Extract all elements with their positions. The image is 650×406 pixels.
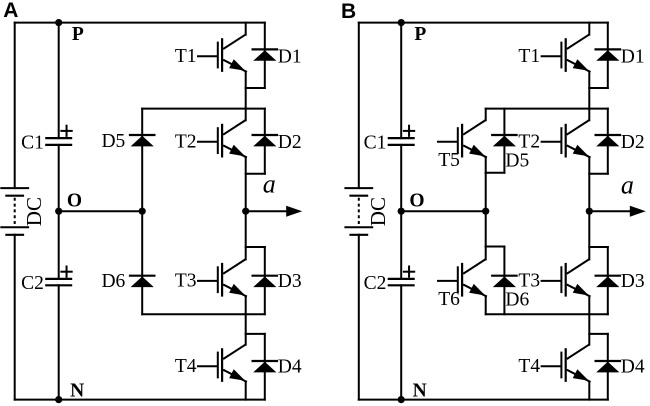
wire bottom rail N xyxy=(15,399,265,401)
wire left branch upper xyxy=(14,23,16,189)
diode D4 cathode bar xyxy=(253,360,277,362)
capacitor C1 bottom plate xyxy=(46,144,71,146)
svg-text:T2: T2 xyxy=(175,132,197,153)
diode D4 triangle xyxy=(253,362,276,373)
svg-text:T6: T6 xyxy=(438,289,460,310)
output arrow line xyxy=(246,210,289,212)
DC source battery cell 1 long plate xyxy=(345,187,372,189)
wire output to T3 collector xyxy=(588,211,590,259)
transistor T4 collector lead xyxy=(224,345,245,359)
wire D3 cathode jog xyxy=(246,246,265,248)
transistor T1 gate lead xyxy=(198,55,217,57)
diode D3 triangle xyxy=(253,277,276,288)
wire O to clamp diodes xyxy=(59,210,143,212)
wire T1 emitter to junction xyxy=(245,72,247,109)
svg-text:B: B xyxy=(341,0,356,23)
svg-text:C2: C2 xyxy=(364,273,387,294)
svg-text:D4: D4 xyxy=(621,356,645,377)
transistor T2 emitter lead xyxy=(224,146,246,157)
transistor T4 emitter arrow xyxy=(229,369,245,381)
svg-text:D6: D6 xyxy=(505,289,529,310)
capacitor C2 top plate xyxy=(46,278,71,280)
transistor T3 emitter lead xyxy=(568,285,590,296)
wire T3 emitter to junction xyxy=(245,296,247,314)
wire D1 column xyxy=(607,23,609,88)
svg-text:A: A xyxy=(3,0,18,22)
transistor T2 emitter arrow xyxy=(229,145,245,157)
svg-text:T5: T5 xyxy=(438,150,460,171)
diode D6 triangle xyxy=(493,277,516,288)
svg-text:C1: C1 xyxy=(21,132,44,153)
transistor T2 gate lead xyxy=(198,141,217,143)
diode D4 cathode bar xyxy=(596,360,620,362)
transistor T4 gate lead xyxy=(198,365,217,367)
svg-text:D3: D3 xyxy=(621,271,645,292)
transistor T2 body bar xyxy=(565,125,567,156)
node N xyxy=(55,396,62,403)
wire clamp column upper xyxy=(141,109,143,212)
svg-text:C1: C1 xyxy=(364,132,387,153)
transistor T3 gate bar xyxy=(560,267,562,292)
diode D5 triangle xyxy=(131,136,154,147)
wire top rail P xyxy=(15,22,265,24)
wire T1 collector stub xyxy=(588,23,590,35)
diode D1 cathode bar xyxy=(253,48,277,50)
wire D4 cathode jog xyxy=(246,333,265,335)
transistor T6 body bar xyxy=(461,264,463,296)
wire capacitor branch C1 to C2 xyxy=(58,145,60,279)
transistor T3 emitter arrow xyxy=(229,284,245,296)
transistor T1 gate bar xyxy=(217,43,219,68)
wire T5 collector stub xyxy=(485,109,487,121)
transistor T4 emitter arrow xyxy=(573,369,589,381)
wire T6 collector stub xyxy=(485,247,487,260)
wire upper junction line xyxy=(142,108,265,110)
DC source battery cell 1 short plate xyxy=(351,195,368,197)
transistor T3 body bar xyxy=(221,264,223,296)
transistor T2 gate bar xyxy=(217,128,219,153)
wire T1 collector stub xyxy=(245,23,247,35)
transistor T3 emitter arrow xyxy=(573,284,589,296)
svg-text:D2: D2 xyxy=(278,132,302,153)
wire D2 column xyxy=(264,109,266,174)
wire T4 collector stub xyxy=(588,314,590,345)
node O xyxy=(55,208,62,215)
transistor T1 gate bar xyxy=(560,43,562,68)
wire D4 column xyxy=(607,334,609,400)
diode D2 cathode bar xyxy=(596,134,620,136)
diode D5 cathode bar xyxy=(492,134,516,136)
svg-text:C2: C2 xyxy=(21,273,44,294)
svg-text:a: a xyxy=(621,170,634,199)
transistor T1 body bar xyxy=(221,39,223,71)
wire D3 column xyxy=(607,247,609,314)
diode D6 cathode bar xyxy=(130,275,154,277)
output arrowhead xyxy=(630,206,646,217)
transistor T3 gate bar xyxy=(217,267,219,292)
wire T2 emitter to output xyxy=(245,157,247,211)
transistor T5 gate bar xyxy=(457,128,459,153)
svg-text:P: P xyxy=(72,24,84,45)
diode D3 triangle xyxy=(596,277,619,288)
svg-text:D1: D1 xyxy=(278,46,302,67)
node O xyxy=(398,208,405,215)
transistor T1 gate lead xyxy=(542,55,561,57)
transistor T3 collector lead xyxy=(224,259,245,273)
wire left branch lower xyxy=(14,235,16,400)
transistor T1 collector lead xyxy=(224,35,245,49)
transistor T6 collector lead xyxy=(464,259,485,273)
wire D4 cathode jog xyxy=(589,333,608,335)
wire D5 column xyxy=(503,109,505,173)
wire clamp to O xyxy=(485,173,487,211)
capacitor C1 plus sign xyxy=(61,130,71,132)
wire D6 column xyxy=(503,247,505,315)
node output a xyxy=(586,208,593,215)
transistor T3 emitter lead xyxy=(224,285,246,296)
wire D1 column xyxy=(264,23,266,88)
transistor T4 emitter lead xyxy=(224,370,246,381)
wire lower junction line xyxy=(142,313,265,315)
wire T6 jog to D6 xyxy=(486,246,505,248)
svg-text:D5: D5 xyxy=(101,131,125,152)
wire T2 emitter to output xyxy=(588,157,590,211)
transistor T1 emitter lead xyxy=(568,60,590,71)
svg-text:N: N xyxy=(413,380,427,401)
transistor T2 collector lead xyxy=(568,120,589,134)
transistor T1 collector lead xyxy=(568,35,589,49)
svg-text:T1: T1 xyxy=(175,46,197,67)
wire T4 emitter to N rail xyxy=(245,382,247,400)
wire lower junction line xyxy=(486,313,608,315)
wire bottom rail N xyxy=(359,399,608,401)
capacitor C2 plus sign xyxy=(404,271,414,273)
svg-text:O: O xyxy=(67,190,82,211)
DC source dashed link xyxy=(358,198,360,224)
wire O to T6 jog xyxy=(485,211,487,246)
transistor T4 collector lead xyxy=(568,345,589,359)
svg-text:D2: D2 xyxy=(621,132,645,153)
svg-text:T2: T2 xyxy=(518,132,540,153)
diode D4 triangle xyxy=(596,362,619,373)
svg-text:O: O xyxy=(409,190,424,211)
wire T2 collector stub xyxy=(245,109,247,121)
wire capacitor branch P to C1 xyxy=(400,23,402,139)
diode D6 cathode bar xyxy=(492,275,516,277)
transistor T6 emitter arrow xyxy=(469,284,485,296)
wire D1 anode jog xyxy=(589,87,608,89)
capacitor C2 plus sign xyxy=(61,271,71,273)
node active clamp junction xyxy=(482,208,489,215)
transistor T1 emitter arrow xyxy=(229,59,245,71)
capacitor C1 top plate xyxy=(46,137,71,139)
node P xyxy=(55,19,62,26)
wire T4 collector stub xyxy=(245,314,247,345)
svg-text:a: a xyxy=(263,169,276,198)
DC source battery cell 2 long plate xyxy=(1,226,28,228)
transistor T4 body bar xyxy=(565,349,567,381)
DC source battery cell 2 short plate xyxy=(6,234,23,236)
transistor T5 emitter lead xyxy=(464,146,486,157)
diode D3 cathode bar xyxy=(253,275,277,277)
transistor T3 gate lead xyxy=(542,280,561,282)
wire left branch upper xyxy=(358,23,360,189)
diode D5 triangle xyxy=(493,136,516,147)
transistor T3 body bar xyxy=(565,264,567,296)
wire clamp column lower xyxy=(141,211,143,314)
transistor T4 gate bar xyxy=(560,353,562,378)
node output a xyxy=(242,208,249,215)
diode D1 triangle xyxy=(253,50,276,61)
wire left branch lower xyxy=(358,235,360,400)
svg-text:T4: T4 xyxy=(518,356,540,377)
wire T5 jog to D5 xyxy=(486,172,505,174)
transistor T5 gate lead xyxy=(438,141,457,143)
transistor T5 body bar xyxy=(461,125,463,156)
transistor T3 gate lead xyxy=(198,280,217,282)
svg-text:D1: D1 xyxy=(621,46,645,67)
svg-text:D5: D5 xyxy=(505,150,529,171)
wire T3 emitter to junction xyxy=(588,296,590,314)
DC source dashed link xyxy=(14,198,16,224)
transistor T5 emitter arrow xyxy=(469,145,485,157)
wire capacitor branch C2 to N xyxy=(58,285,60,399)
svg-text:DC: DC xyxy=(366,197,390,226)
transistor T6 gate lead xyxy=(438,280,457,282)
transistor T2 collector lead xyxy=(224,120,245,134)
diode D6 triangle xyxy=(131,277,154,288)
transistor T1 emitter arrow xyxy=(573,59,589,71)
svg-text:N: N xyxy=(70,380,84,401)
diode D2 cathode bar xyxy=(253,134,277,136)
wire D4 column xyxy=(264,334,266,400)
svg-text:T3: T3 xyxy=(518,271,540,292)
capacitor C1 bottom plate xyxy=(389,144,414,146)
transistor T4 emitter lead xyxy=(568,370,590,381)
wire D2 anode jog xyxy=(589,173,608,175)
transistor T5 collector lead xyxy=(464,120,485,134)
DC source battery cell 2 long plate xyxy=(345,226,372,228)
wire D3 column xyxy=(264,247,266,314)
svg-text:D4: D4 xyxy=(278,356,302,377)
transistor T3 collector lead xyxy=(568,259,589,273)
transistor T6 emitter lead xyxy=(464,285,486,296)
transistor T1 emitter lead xyxy=(224,60,246,71)
transistor T4 body bar xyxy=(221,349,223,381)
transistor T2 body bar xyxy=(221,125,223,156)
diode D1 cathode bar xyxy=(596,48,620,50)
transistor T2 gate bar xyxy=(560,128,562,153)
transistor T2 emitter arrow xyxy=(573,145,589,157)
wire T2 collector stub xyxy=(588,109,590,121)
wire upper junction line xyxy=(486,108,608,110)
output arrowhead xyxy=(286,206,302,217)
capacitor C2 bottom plate xyxy=(389,284,414,286)
DC source battery cell 1 long plate xyxy=(1,187,28,189)
svg-text:T4: T4 xyxy=(175,356,197,377)
diode D2 triangle xyxy=(596,136,619,147)
wire capacitor branch P to C1 xyxy=(58,23,60,139)
wire D2 column xyxy=(607,109,609,174)
capacitor C2 top plate xyxy=(389,278,414,280)
wire D1 anode jog xyxy=(246,87,265,89)
wire O to active clamp xyxy=(401,210,486,212)
capacitor C1 plus sign xyxy=(404,130,414,132)
wire output to T3 collector xyxy=(245,211,247,259)
diode D5 cathode bar xyxy=(130,134,154,136)
wire T1 emitter to junction xyxy=(588,72,590,109)
capacitor C2 bottom plate xyxy=(46,284,71,286)
diode D3 cathode bar xyxy=(596,275,620,277)
wire capacitor branch C2 to N xyxy=(400,285,402,399)
wire top rail P xyxy=(359,22,608,24)
DC source battery cell 2 short plate xyxy=(351,234,368,236)
wire D2 anode jog xyxy=(246,173,265,175)
svg-text:D6: D6 xyxy=(101,271,125,292)
diode D1 triangle xyxy=(596,50,619,61)
svg-text:P: P xyxy=(414,24,426,45)
wire D3 cathode jog xyxy=(589,246,608,248)
transistor T1 body bar xyxy=(565,39,567,71)
wire T4 emitter to N rail xyxy=(588,382,590,400)
svg-text:T3: T3 xyxy=(175,271,197,292)
capacitor C1 top plate xyxy=(389,137,414,139)
svg-text:DC: DC xyxy=(22,197,46,226)
transistor T2 emitter lead xyxy=(568,146,590,157)
svg-text:T1: T1 xyxy=(518,46,540,67)
DC source battery cell 1 short plate xyxy=(6,195,23,197)
transistor T4 gate lead xyxy=(542,365,561,367)
node N xyxy=(398,396,405,403)
transistor T6 gate bar xyxy=(457,267,459,292)
svg-text:D3: D3 xyxy=(278,271,302,292)
node P xyxy=(398,19,405,26)
diode D2 triangle xyxy=(253,136,276,147)
output arrow line xyxy=(589,210,632,212)
wire T5 emitter to jog xyxy=(485,157,487,173)
wire capacitor branch C1 to C2 xyxy=(400,145,402,279)
wire T6 emitter to junction xyxy=(485,296,487,314)
node clamp junction xyxy=(139,208,146,215)
transistor T2 gate lead xyxy=(542,141,561,143)
transistor T4 gate bar xyxy=(217,353,219,378)
